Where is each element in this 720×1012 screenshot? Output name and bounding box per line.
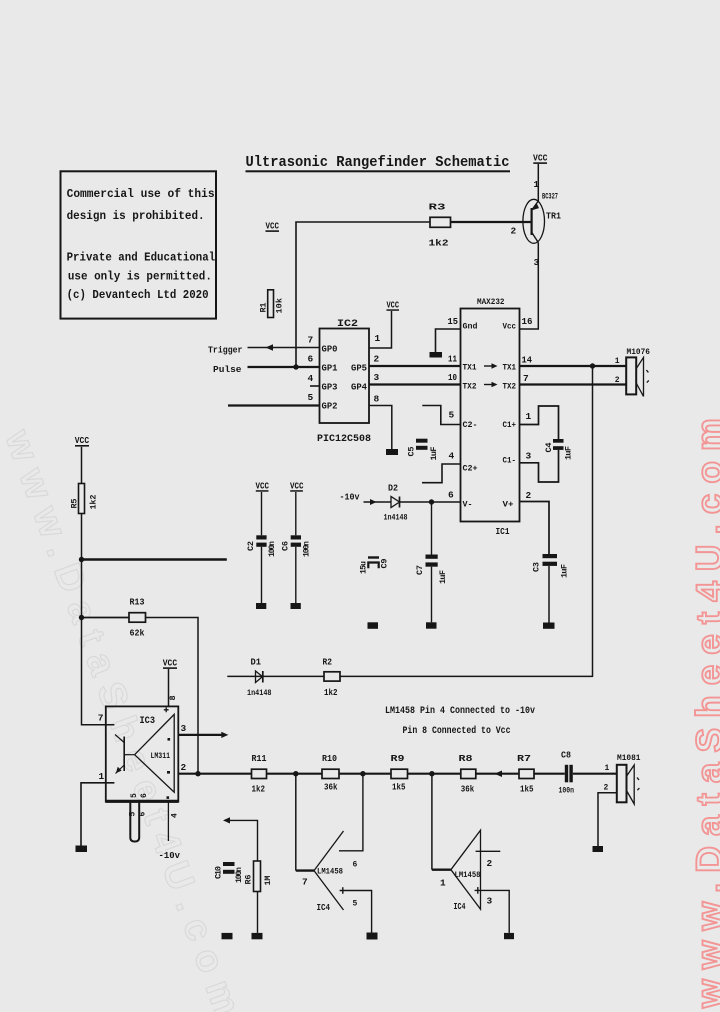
svg-text:C10: C10 [214,866,224,879]
svg-text:4: 4 [171,813,180,818]
wire vcc to C6 [295,492,297,535]
svg-text:3: 3 [181,723,187,734]
wire junction to C7 [431,502,433,555]
svg-text:6: 6 [353,861,358,870]
svg-text:5: 5 [130,793,139,798]
svg-text:1uF: 1uF [438,570,448,584]
svg-text:IC1: IC1 [496,526,510,537]
svg-text:C3: C3 [532,562,542,572]
junction R11/R10/IC4a out [293,771,298,776]
svg-text:MAX232: MAX232 [477,297,505,307]
wire to R13 [82,617,130,619]
svg-text:1: 1 [615,357,620,366]
op-amp IC4a LM1458 [302,831,358,913]
wire TX1 MAX232 to M1076 pin1 [520,365,626,367]
svg-text:7: 7 [308,335,314,346]
ground IC3 pin1 [76,846,88,853]
svg-text:-10v: -10v [159,850,181,861]
svg-text:LM311: LM311 [151,751,171,761]
svg-text:1k2: 1k2 [252,785,266,795]
svg-text:M1081: M1081 [617,753,641,763]
svg-text:6: 6 [448,490,454,501]
wire IC3 pin1 to ground [81,783,114,846]
ground C2 [256,603,266,609]
svg-text:TX2: TX2 [503,382,517,392]
svg-text:C4: C4 [544,443,554,453]
svg-text:15u: 15u [360,561,369,574]
transducer M1081 [604,753,641,804]
watermark red right edge [689,408,720,1009]
svg-text:R9: R9 [391,753,405,764]
svg-text:TR1: TR1 [546,211,561,222]
svg-text:3: 3 [487,896,493,907]
vcc symbol C2 [256,481,270,491]
svg-text:C2-: C2- [463,420,478,430]
svg-text:Gnd: Gnd [463,321,478,331]
svg-text:10k: 10k [275,298,285,314]
wire IC4b inv input stub [476,850,501,852]
svg-text:1uF: 1uF [429,447,439,461]
svg-text:Trigger: Trigger [208,345,243,356]
svg-text:VCC: VCC [75,435,90,446]
resistor R8 [459,753,476,795]
op IC2 PIC12C508 box [308,318,381,445]
svg-text:62k: 62k [130,628,145,639]
capacitor C8 [559,751,575,796]
svg-text:1: 1 [526,411,532,422]
capacitor C6 [281,535,312,557]
wire MAX232 Gnd pin15 [436,329,461,352]
svg-text:BC327: BC327 [542,193,558,202]
wire IC3 pin2 to R11 [178,773,251,775]
svg-text:5: 5 [449,410,455,421]
junction V-/C7 [429,499,434,504]
svg-text:6: 6 [308,354,314,365]
svg-text:GP1: GP1 [322,364,339,374]
wire R13 to IC3 pin2 net [146,618,199,774]
svg-text:C1-: C1- [503,456,517,466]
wire IC3 pin4 to -10v [167,803,169,842]
svg-text:M1076: M1076 [627,347,651,357]
svg-text:2: 2 [487,858,493,869]
resistor R2 [323,658,341,699]
svg-text:D2: D2 [388,484,398,494]
wire R8 to R7 with arrow [476,773,519,775]
svg-text:(c) Devantech Ltd 2020: (c) Devantech Ltd 2020 [67,289,209,302]
wire vcc corner to R3 [296,222,430,367]
svg-text:LM1458: LM1458 [317,867,343,877]
svg-text:2: 2 [374,354,380,365]
op IC1 MAX232 box [448,297,533,537]
op-amp IC4b LM1458 [440,830,493,912]
wire IC4a inv input up to R10/R9 junction [339,776,363,851]
svg-text:4: 4 [308,373,314,384]
svg-text:Vcc: Vcc [503,321,517,331]
svg-text:C1+: C1+ [503,420,517,430]
ground R6 [252,933,263,939]
junction TX1/feedback [590,363,595,368]
vcc symbol C6 [290,481,304,491]
ground C3 [543,623,555,629]
svg-text:14: 14 [522,355,533,366]
ground IC2 pin8 [386,449,398,455]
svg-text:1: 1 [605,764,610,773]
svg-text:GP2: GP2 [322,402,338,412]
resistor R3 [429,202,451,249]
svg-text:Commercial use of this: Commercial use of this [67,188,215,201]
op-amp IC3 LM311 [98,695,187,801]
resistor R10 [322,753,339,793]
svg-text:IC3: IC3 [140,716,156,727]
wire arrow to R6 [226,820,258,861]
wire TX2 net IC2 GP4 to MAX232 [369,383,461,385]
vcc symbol top-left [266,220,280,232]
svg-text:5: 5 [129,812,138,817]
svg-text:1uF: 1uF [560,564,570,578]
resistor R13 [129,597,146,639]
wire C3 to ground [548,566,550,623]
svg-text:C9: C9 [380,559,390,569]
wire M1081 pin2 to ground [598,793,617,846]
resistor R5 [70,484,99,514]
wire IC3 pin3 output with arrow [178,734,221,736]
ground IC4b [504,933,514,939]
svg-text:6: 6 [140,793,149,798]
svg-text:15: 15 [448,316,459,327]
svg-text:2: 2 [526,490,532,501]
wire stub right [82,558,227,560]
arrow TX2 internal [484,384,493,386]
wire vcc to TR1 emitter [537,164,539,201]
svg-text:1k5: 1k5 [392,783,406,793]
wire IC2 pin8 to ground [369,406,392,450]
wire vcc to C2 [261,492,263,535]
svg-text:7: 7 [98,713,104,724]
svg-text:IC4: IC4 [317,903,331,913]
ground IC4a [367,933,378,940]
svg-text:7: 7 [523,373,529,384]
svg-text:C6: C6 [281,541,291,551]
svg-text:Ultrasonic Rangefinder Schemat: Ultrasonic Rangefinder Schematic [246,155,510,171]
svg-text:1n4148: 1n4148 [247,689,272,698]
svg-text:1: 1 [375,333,381,344]
svg-text:VCC: VCC [533,152,548,163]
pins 5/6 bracket below IC3 [130,803,139,842]
svg-text:3: 3 [526,451,532,462]
svg-text:1k5: 1k5 [520,785,534,795]
svg-text:TX2: TX2 [463,382,477,392]
wire pulse line [248,366,320,368]
transducer M1076 [615,347,650,396]
svg-text:Pin 8 Connected to Vcc: Pin 8 Connected to Vcc [403,725,511,737]
svg-text:100n: 100n [268,541,277,557]
wire vcc to R5 [81,447,83,484]
svg-text:7: 7 [302,877,308,888]
svg-text:D1: D1 [251,658,262,668]
arrow on -10v wire [370,499,377,505]
wire MAX232 C2- hook [422,406,460,425]
wire R3 to TR1 base [451,221,532,223]
junction R10/R9/IC4a inv [360,771,365,776]
wire MAX232 C2+ hook [422,464,461,483]
svg-text:VCC: VCC [256,481,270,491]
svg-text:1n4148: 1n4148 [384,514,408,523]
svg-text:1: 1 [440,878,446,889]
svg-text:GP5: GP5 [351,364,367,374]
svg-text:6: 6 [139,812,148,817]
vcc symbol IC3 pin8 [163,657,178,669]
wire IC2 pin1 to vcc [369,311,392,348]
wire C4 to MAX232 C1- hook [520,450,559,482]
wire junction to IC4b output [431,774,433,870]
svg-text:TX1: TX1 [463,363,477,373]
vcc symbol R5 [75,435,90,447]
svg-text:2: 2 [615,376,620,385]
wire R7 to C8 [534,773,565,775]
svg-text:100n: 100n [303,541,312,557]
wire trigger line [248,347,320,349]
wire C6 to ground [295,547,297,603]
wire R11 to R10 [267,773,323,775]
svg-text:R7: R7 [517,753,531,764]
junction R9/R8/IC4b out [429,771,434,776]
capacitor C10 [214,862,245,883]
svg-text:R13: R13 [130,597,145,608]
svg-text:R8: R8 [459,753,473,764]
resistor R1 [259,290,285,318]
svg-text:10: 10 [448,372,457,383]
svg-text:1: 1 [99,771,105,782]
svg-text:R5: R5 [70,499,80,509]
svg-text:design is prohibited.: design is prohibited. [67,210,205,223]
svg-text:Pulse: Pulse [213,364,242,375]
svg-text:Private and Educational: Private and Educational [67,252,216,265]
svg-text:www.DataSheet4U.com: www.DataSheet4U.com [689,408,720,1009]
ground below C10 [222,933,233,939]
svg-text:C2: C2 [246,541,256,551]
wire vcc to IC3 pin8 [168,669,170,706]
ground C7 [426,622,437,628]
wire TX1 net IC2 GP5 to MAX232 [369,365,461,367]
svg-text:C5: C5 [407,447,417,457]
wire MAX232 C1+ hook to C4 [520,406,559,439]
svg-text:IC4: IC4 [454,902,466,912]
ground MAX232 pin15 [430,352,443,358]
svg-text:LM1458: LM1458 [455,870,481,880]
svg-text:4: 4 [449,451,455,462]
capacitor C2 [246,535,277,557]
svg-text:C7: C7 [415,565,425,575]
svg-text:R11: R11 [252,753,267,764]
svg-text:V+: V+ [503,500,514,510]
ground C6 [291,603,301,609]
wire TX2 MAX232 to M1076 pin2 [520,383,626,385]
ground below C9 [368,622,379,629]
svg-text:LM1458 Pin 4 Connected to -10v: LM1458 Pin 4 Connected to -10v [385,705,535,717]
wire R9 to R8 [408,773,461,775]
svg-text:use only is permitted.: use only is permitted. [68,271,212,284]
wire D2 to MAX232 V- [400,501,461,503]
svg-text:V-: V- [463,500,473,510]
svg-text:IC2: IC2 [337,318,358,330]
svg-text:36k: 36k [324,783,338,793]
arrow TX1 internal [484,365,493,367]
svg-text:5: 5 [353,900,358,909]
resistor R11 [252,753,267,795]
arrow on trigger line [266,344,274,351]
svg-text:R10: R10 [322,753,337,764]
capacitor C5 [407,439,440,461]
svg-text:PIC12C508: PIC12C508 [317,434,371,445]
notice box [61,171,217,318]
capacitor C3 [532,554,570,578]
junction R5/stub [79,557,84,562]
svg-text:C2+: C2+ [463,464,478,474]
svg-text:2: 2 [181,762,187,773]
wire R10 to R9 [339,773,391,775]
wire C8 to M1081 [573,773,617,775]
svg-text:1M: 1M [263,876,273,886]
vcc symbol TR1 [533,152,548,164]
resistor R7 [517,753,534,795]
svg-text:R1: R1 [259,303,269,313]
wire junction to IC4a output [295,774,297,871]
wire TR1 collector down to MAX232 vcc pin16 [520,243,538,330]
wire R5 down to IC3 pin7 [82,514,115,725]
svg-text:VCC: VCC [266,220,280,231]
wire IC4a +input to ground [340,891,372,933]
svg-text:1: 1 [534,180,540,190]
vcc symbol IC2 pin1 [387,301,400,311]
svg-text:GP0: GP0 [322,345,338,355]
wire GP2 line [228,404,320,406]
svg-text:16: 16 [522,316,533,327]
svg-text:100n: 100n [559,787,575,796]
wire C7 to ground [431,567,433,623]
svg-text:8: 8 [374,394,380,405]
svg-text:2: 2 [604,784,609,793]
pads [168,738,171,741]
wire -10v to D2 [364,501,392,503]
capacitor C7 [415,555,448,585]
svg-text:VCC: VCC [387,301,400,311]
diode D2 1n4148 [384,484,408,523]
wire R6 to ground [257,892,259,933]
transistor TR1 BC327 [511,180,562,268]
svg-text:GP3: GP3 [322,383,338,393]
svg-text:1k2: 1k2 [324,688,338,698]
watermark diagonal gray [0,424,251,1012]
wire TX1 down to D1 row [227,366,592,676]
junction IC3 pin2 [195,771,200,776]
svg-text:5: 5 [308,392,314,403]
wire GP3 stub [310,385,320,387]
svg-text:8: 8 [168,695,178,700]
transistor inside LM311 [123,737,125,772]
svg-text:3: 3 [374,372,380,383]
svg-text:1k2: 1k2 [429,238,449,249]
svg-text:TX1: TX1 [503,363,517,373]
svg-text:C8: C8 [561,751,571,761]
ground M1081 [593,846,604,852]
svg-text:1uF: 1uF [564,446,574,460]
svg-text:R3: R3 [429,202,446,213]
svg-text:VCC: VCC [290,481,304,491]
svg-text:11: 11 [448,354,457,365]
junction pulse/vcc [293,364,298,369]
svg-text:GP4: GP4 [351,383,368,393]
wire MAX232 V+ pin2 to C3 [520,502,549,555]
svg-text:R6: R6 [244,875,254,885]
svg-text:2: 2 [511,226,517,237]
svg-text:-10v: -10v [340,491,360,502]
junction R5/R13 [79,615,84,620]
svg-text:36k: 36k [461,785,475,795]
capacitor C4 [544,439,574,460]
capacitor C9 [360,556,390,574]
wire C2 to ground [261,547,263,603]
svg-text:VCC: VCC [163,657,178,668]
svg-text:R2: R2 [323,658,333,668]
resistor R6 [244,861,274,892]
diode D1 1n4148 [247,658,272,699]
resistor R9 [391,753,408,793]
svg-text:1k2: 1k2 [89,495,99,510]
wire IC4b +input to ground [475,890,510,933]
